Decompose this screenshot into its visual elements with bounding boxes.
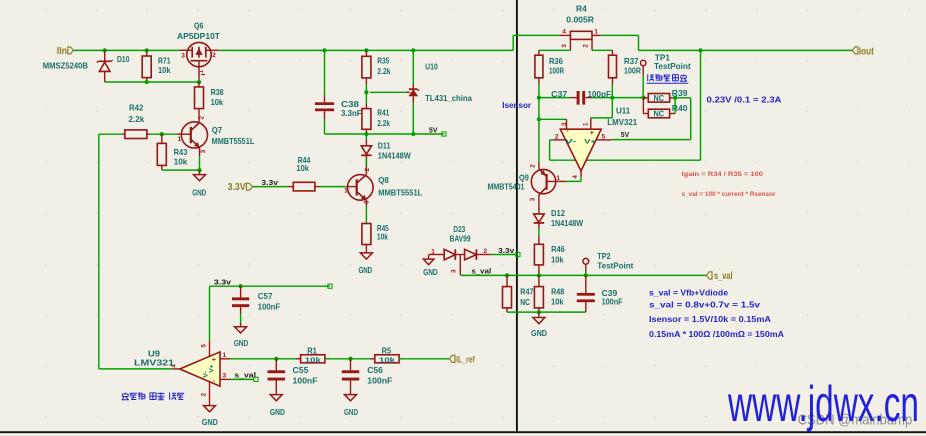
svg-text:5V: 5V (429, 125, 438, 134)
ground below R45 (358, 253, 372, 275)
svg-text:3: 3 (561, 44, 568, 48)
svg-text:U10: U10 (425, 63, 438, 72)
resistor R46 10k (534, 237, 565, 276)
resistor R1 10k (296, 347, 329, 365)
svg-text:10k: 10k (174, 157, 188, 166)
diode D12 1N4148W (534, 209, 584, 236)
svg-text:3.3v: 3.3v (214, 278, 232, 287)
svg-text:R43: R43 (174, 148, 188, 157)
svg-text:GND: GND (344, 408, 358, 417)
svg-text:10k: 10k (158, 66, 171, 75)
svg-text:C38: C38 (341, 100, 360, 109)
hierarchical label IL_ref (449, 354, 475, 365)
svg-text:NC: NC (654, 110, 665, 119)
note formulas red (682, 171, 776, 198)
svg-text:1: 1 (198, 69, 205, 73)
svg-text:R4: R4 (576, 5, 587, 14)
svg-text:C37: C37 (551, 90, 568, 99)
wire U11 output to Q9 base (580, 177, 582, 182)
svg-text:3: 3 (529, 197, 536, 201)
svg-text:s_val: s_val (234, 371, 256, 380)
ground at D23 pin 1 (423, 255, 438, 278)
svg-text:R37: R37 (624, 57, 639, 66)
svg-text:1: 1 (223, 352, 227, 359)
svg-text:IL_ref: IL_ref (456, 354, 475, 365)
svg-text:s_val = Vfb+Vdiode: s_val = Vfb+Vdiode (649, 289, 729, 298)
wire D23 pin2 3.3v to border (491, 254, 518, 256)
wire to U11 pin 3 (539, 118, 567, 120)
note text current-limit point (Chinese) (647, 74, 689, 83)
svg-text:3: 3 (223, 373, 227, 380)
svg-text:V-: V- (203, 371, 210, 377)
wire R37 bottom to C37 row (611, 84, 613, 98)
capacitor C57 100nF (232, 286, 280, 323)
wire R36 node down to Q9 emitter (538, 98, 540, 162)
svg-text:R41: R41 (377, 108, 389, 117)
svg-text:V-: V- (565, 139, 576, 146)
wire U10 anode down (412, 103, 414, 134)
wire top rail to U10 cathode (411, 48, 415, 52)
wire IIn to Q6 source (73, 49, 179, 51)
wire R4 sense right to R37 (592, 49, 613, 51)
wire Iout node down to U11 V- (700, 50, 702, 160)
svg-text:1N4148W: 1N4148W (378, 152, 411, 161)
wire 5V node to op-amp V+ (675, 97, 691, 99)
svg-text:TP2: TP2 (597, 252, 611, 261)
ground below C55 (270, 389, 285, 417)
svg-text:R71: R71 (158, 56, 171, 65)
svg-text:2: 2 (555, 133, 559, 140)
capacitor C39 100nF (577, 275, 623, 312)
capacitor C37 100pF (539, 90, 612, 105)
svg-text:s_val = 100 * current * Rsenso: s_val = 100 * current * Rsensor (682, 191, 776, 198)
hierarchical label Iout (852, 46, 874, 57)
svg-text:10k: 10k (551, 298, 564, 307)
wire 5V row under TL431 (325, 133, 444, 135)
op-amp U11 LMV321 (553, 106, 638, 178)
transistor Q6 AP5DP10T P-MOSFET (177, 21, 220, 82)
svg-text:GND: GND (192, 188, 206, 197)
wire R39/R40 right join (674, 98, 676, 114)
wire R43 bottom to emitter node (162, 169, 200, 171)
svg-text:R38: R38 (211, 88, 224, 97)
svg-text:NC: NC (520, 298, 530, 307)
svg-text:s_val: s_val (714, 271, 733, 282)
ground below R48 (531, 312, 547, 338)
wire Q7 emitter down (199, 156, 201, 170)
svg-text:TestPoint: TestPoint (597, 262, 633, 271)
svg-text:IIn: IIn (57, 46, 67, 57)
resistor R40 NC (643, 98, 688, 119)
capacitor C38 3.3nF (315, 48, 362, 134)
svg-text:1: 1 (594, 28, 598, 35)
ground below Q7 (192, 170, 206, 197)
svg-text:0.23V /0.1 = 2.3A: 0.23V /0.1 = 2.3A (707, 96, 782, 105)
svg-text:Q6: Q6 (194, 21, 204, 30)
svg-text:Igain = R34 / R35 = 100: Igain = R34 / R35 = 100 (682, 171, 764, 178)
svg-text:3.3nF: 3.3nF (341, 109, 362, 118)
svg-text:3.3V: 3.3V (228, 182, 246, 193)
op-amp U9 LMV321 (134, 340, 230, 397)
wire to Iout (639, 49, 853, 51)
svg-text:s_val: s_val (471, 266, 491, 275)
wire 3.3V label to R44 (253, 186, 289, 188)
svg-text:+: + (590, 128, 594, 137)
unconnected end square 3.3v rail (328, 284, 332, 288)
svg-text:2: 2 (364, 167, 371, 171)
svg-text:0.15mA * 100Ω /100mΩ = 150mA: 0.15mA * 100Ω /100mΩ = 150mA (649, 330, 784, 339)
diode D23 BAV99 dual (429, 225, 491, 275)
resistor R45 10k (362, 224, 389, 253)
svg-text:3: 3 (451, 269, 458, 273)
svg-text:100pF: 100pF (588, 90, 612, 99)
svg-text:R35: R35 (377, 56, 389, 65)
wire U9 pin1 to R1 (230, 358, 301, 360)
svg-text:R42: R42 (129, 104, 144, 113)
wire rail down to U9 pin5 (209, 286, 211, 340)
unconnected end square 3.3v (516, 252, 520, 256)
wire s_val from D23 tap (460, 274, 706, 276)
svg-text:1: 1 (431, 248, 435, 255)
svg-text:GND: GND (423, 268, 438, 277)
svg-text:R47: R47 (520, 287, 534, 296)
svg-text:Isensor: Isensor (502, 100, 532, 110)
svg-text:D10: D10 (117, 55, 130, 64)
svg-text:MMBT5401: MMBT5401 (488, 182, 525, 191)
svg-text:100R: 100R (549, 67, 564, 76)
svg-text:2.2k: 2.2k (377, 67, 391, 76)
svg-text:10k: 10k (296, 164, 309, 173)
wire R5 to IL_ref (399, 358, 449, 360)
wire corner up to R4 pin 4 (512, 35, 514, 50)
diode D10 MMSZ5240B zener (43, 48, 130, 82)
test point TP2 (583, 252, 634, 275)
svg-text:GND: GND (202, 418, 218, 427)
svg-text:5: 5 (602, 133, 606, 140)
unconnected end square 5V (442, 132, 446, 136)
svg-text:TL431_china: TL431_china (425, 94, 472, 103)
svg-text:TestPoint: TestPoint (654, 62, 691, 71)
svg-text:2.2k: 2.2k (377, 119, 390, 128)
svg-text:Iout: Iout (859, 46, 874, 57)
shunt reference U10 TL431_china (409, 63, 472, 103)
wire R44 to Q8 base (320, 186, 348, 188)
capacitor C55 100nF (268, 359, 318, 389)
svg-text:100nF: 100nF (602, 298, 623, 307)
resistor R36 100R (535, 50, 564, 84)
svg-text:Q9: Q9 (519, 173, 529, 182)
resistor R41 2.2k (362, 92, 390, 134)
transistor Q8 MMBT5551L NPN (344, 158, 422, 206)
ground below C57 (234, 323, 249, 348)
feedback wire vertical from R42 to U9 output (98, 134, 100, 369)
svg-text:10k: 10k (377, 233, 388, 242)
hierarchical label 3.3V (228, 182, 253, 193)
wire R1 to R5 (325, 358, 375, 360)
resistor R48 10k (534, 275, 564, 312)
svg-text:5V: 5V (621, 130, 630, 139)
resistor R5 10k (371, 347, 404, 365)
svg-text:2: 2 (201, 392, 208, 396)
resistor R44 10k (289, 156, 320, 191)
resistor R37 100R (609, 50, 642, 84)
svg-text:R36: R36 (549, 57, 563, 66)
svg-text:LMV321: LMV321 (134, 359, 175, 368)
svg-text:2: 2 (483, 248, 487, 255)
svg-text:3.3v: 3.3v (261, 178, 278, 187)
svg-text:10k: 10k (211, 98, 224, 107)
svg-text:2: 2 (529, 164, 536, 168)
wire R36 bottom to C37 row (538, 84, 540, 98)
wire U9 pin3 stub (230, 378, 254, 380)
svg-text:1: 1 (178, 136, 182, 143)
svg-text:10k: 10k (305, 355, 322, 364)
svg-text:R48: R48 (551, 287, 565, 296)
svg-text:D12: D12 (551, 209, 565, 218)
resistor R4 0.005R shunt (560, 5, 601, 51)
wire R4 sense left to R36 (539, 49, 571, 51)
svg-text:Q7: Q7 (212, 126, 223, 135)
unconnected end square s_val (254, 377, 258, 381)
svg-text:+: + (212, 355, 217, 364)
svg-text:3.3v: 3.3v (498, 246, 515, 255)
svg-text:100nF: 100nF (293, 377, 318, 386)
transistor Q9 MMBT5401 PNP (488, 162, 567, 214)
wire R42 right to Q7 base (150, 133, 178, 135)
svg-text:1: 1 (583, 122, 590, 126)
wire D11 to Q8 collector (365, 158, 367, 166)
svg-text:2: 2 (582, 44, 589, 48)
svg-text:BAV99: BAV99 (450, 234, 471, 243)
svg-text:GND: GND (531, 329, 547, 338)
wire gnd row under R47/R48/C39 (507, 311, 586, 313)
hierarchical label s_val (707, 271, 733, 282)
svg-text:AP5DP10T: AP5DP10T (177, 32, 220, 41)
ground below U9 (202, 398, 218, 428)
test point TP1 (641, 54, 691, 98)
resistor R71 10k (142, 48, 171, 82)
resistor R39 NC (643, 89, 688, 103)
transistor Q7 MMBT5551L NPN (177, 116, 254, 156)
pin-number mark Q6 gate (201, 74, 205, 76)
svg-text:100nF: 100nF (258, 302, 280, 311)
wire Q6 drain to R4 corner (219, 49, 514, 51)
resistor R43 10k (157, 134, 188, 170)
svg-text:2.2k: 2.2k (129, 115, 145, 124)
svg-text:2: 2 (198, 116, 205, 120)
svg-text:MMSZ5240B: MMSZ5240B (43, 61, 88, 70)
svg-text:2: 2 (212, 52, 216, 59)
resistor R42 2.2k (123, 104, 150, 139)
svg-text:Isensor = 1.5V/10k = 0.15mA: Isensor = 1.5V/10k = 0.15mA (649, 315, 771, 324)
resistor R35 2.2k (362, 48, 391, 92)
svg-text:10k: 10k (551, 255, 564, 264)
svg-text:GND: GND (270, 408, 285, 417)
svg-text:D23: D23 (453, 225, 465, 234)
note text negative feedback (Chinese) (122, 393, 185, 400)
svg-text:R40: R40 (672, 104, 688, 113)
svg-text:3: 3 (363, 200, 370, 204)
wire C37 row to R39/R40 (612, 97, 643, 99)
wire Q8 emitter to R45 (365, 206, 367, 224)
resistor R38 10k (195, 82, 224, 123)
wire 3.3v rail (210, 285, 331, 287)
capacitor C56 100nF (342, 359, 393, 389)
svg-text:GND: GND (358, 266, 372, 275)
ground below C56 (344, 389, 358, 417)
svg-text:100R: 100R (624, 67, 641, 76)
note formulas blue (649, 289, 784, 339)
svg-text:LMV321: LMV321 (607, 118, 637, 127)
wire R42 left to feedback vertical (99, 133, 123, 135)
diode D11 1N4148W (361, 134, 411, 161)
wire D10/R71 bottom to Q6 gate (105, 81, 199, 83)
svg-text:www.jdwx.cn: www.jdwx.cn (727, 376, 919, 432)
sheet border bottom line (0, 431, 926, 433)
svg-text:D11: D11 (378, 142, 391, 151)
wire R4 pin1 to Iout corner (601, 34, 639, 36)
wire U10 ref to R35/R41 node (370, 91, 406, 93)
resistor R47 NC (503, 275, 534, 312)
svg-text:10k: 10k (379, 355, 396, 364)
svg-text:Q8: Q8 (378, 176, 389, 185)
svg-text:U9: U9 (148, 350, 161, 359)
svg-text:V+: V+ (584, 139, 596, 146)
svg-text:1: 1 (556, 175, 560, 182)
svg-text:C56: C56 (367, 366, 383, 375)
svg-text:1N4148W: 1N4148W (551, 219, 583, 228)
svg-text:s_val = 0.8v+0.7v = 1.5v: s_val = 0.8v+0.7v = 1.5v (649, 300, 761, 309)
svg-text:5: 5 (201, 344, 208, 348)
svg-text:R46: R46 (551, 245, 565, 254)
svg-text:3: 3 (200, 149, 207, 153)
svg-text:MMBT5551L: MMBT5551L (378, 189, 422, 198)
svg-text:1: 1 (344, 188, 348, 195)
svg-text:4: 4 (562, 29, 566, 36)
hierarchical label IIn (57, 46, 74, 57)
svg-text:NC: NC (654, 94, 665, 103)
svg-text:MMBT5551L: MMBT5551L (212, 137, 255, 146)
svg-text:4: 4 (572, 175, 579, 179)
svg-text:3: 3 (181, 52, 185, 59)
svg-text:C57: C57 (258, 292, 273, 301)
sheet border vertical divider (516, 0, 518, 433)
svg-text:100nF: 100nF (367, 377, 392, 386)
svg-text:0.005R: 0.005R (566, 16, 594, 25)
wire R37 node to U11 pin 1 (611, 98, 613, 118)
svg-text:U11: U11 (616, 106, 631, 115)
svg-text:GND: GND (234, 339, 249, 348)
svg-text:C55: C55 (293, 366, 309, 375)
